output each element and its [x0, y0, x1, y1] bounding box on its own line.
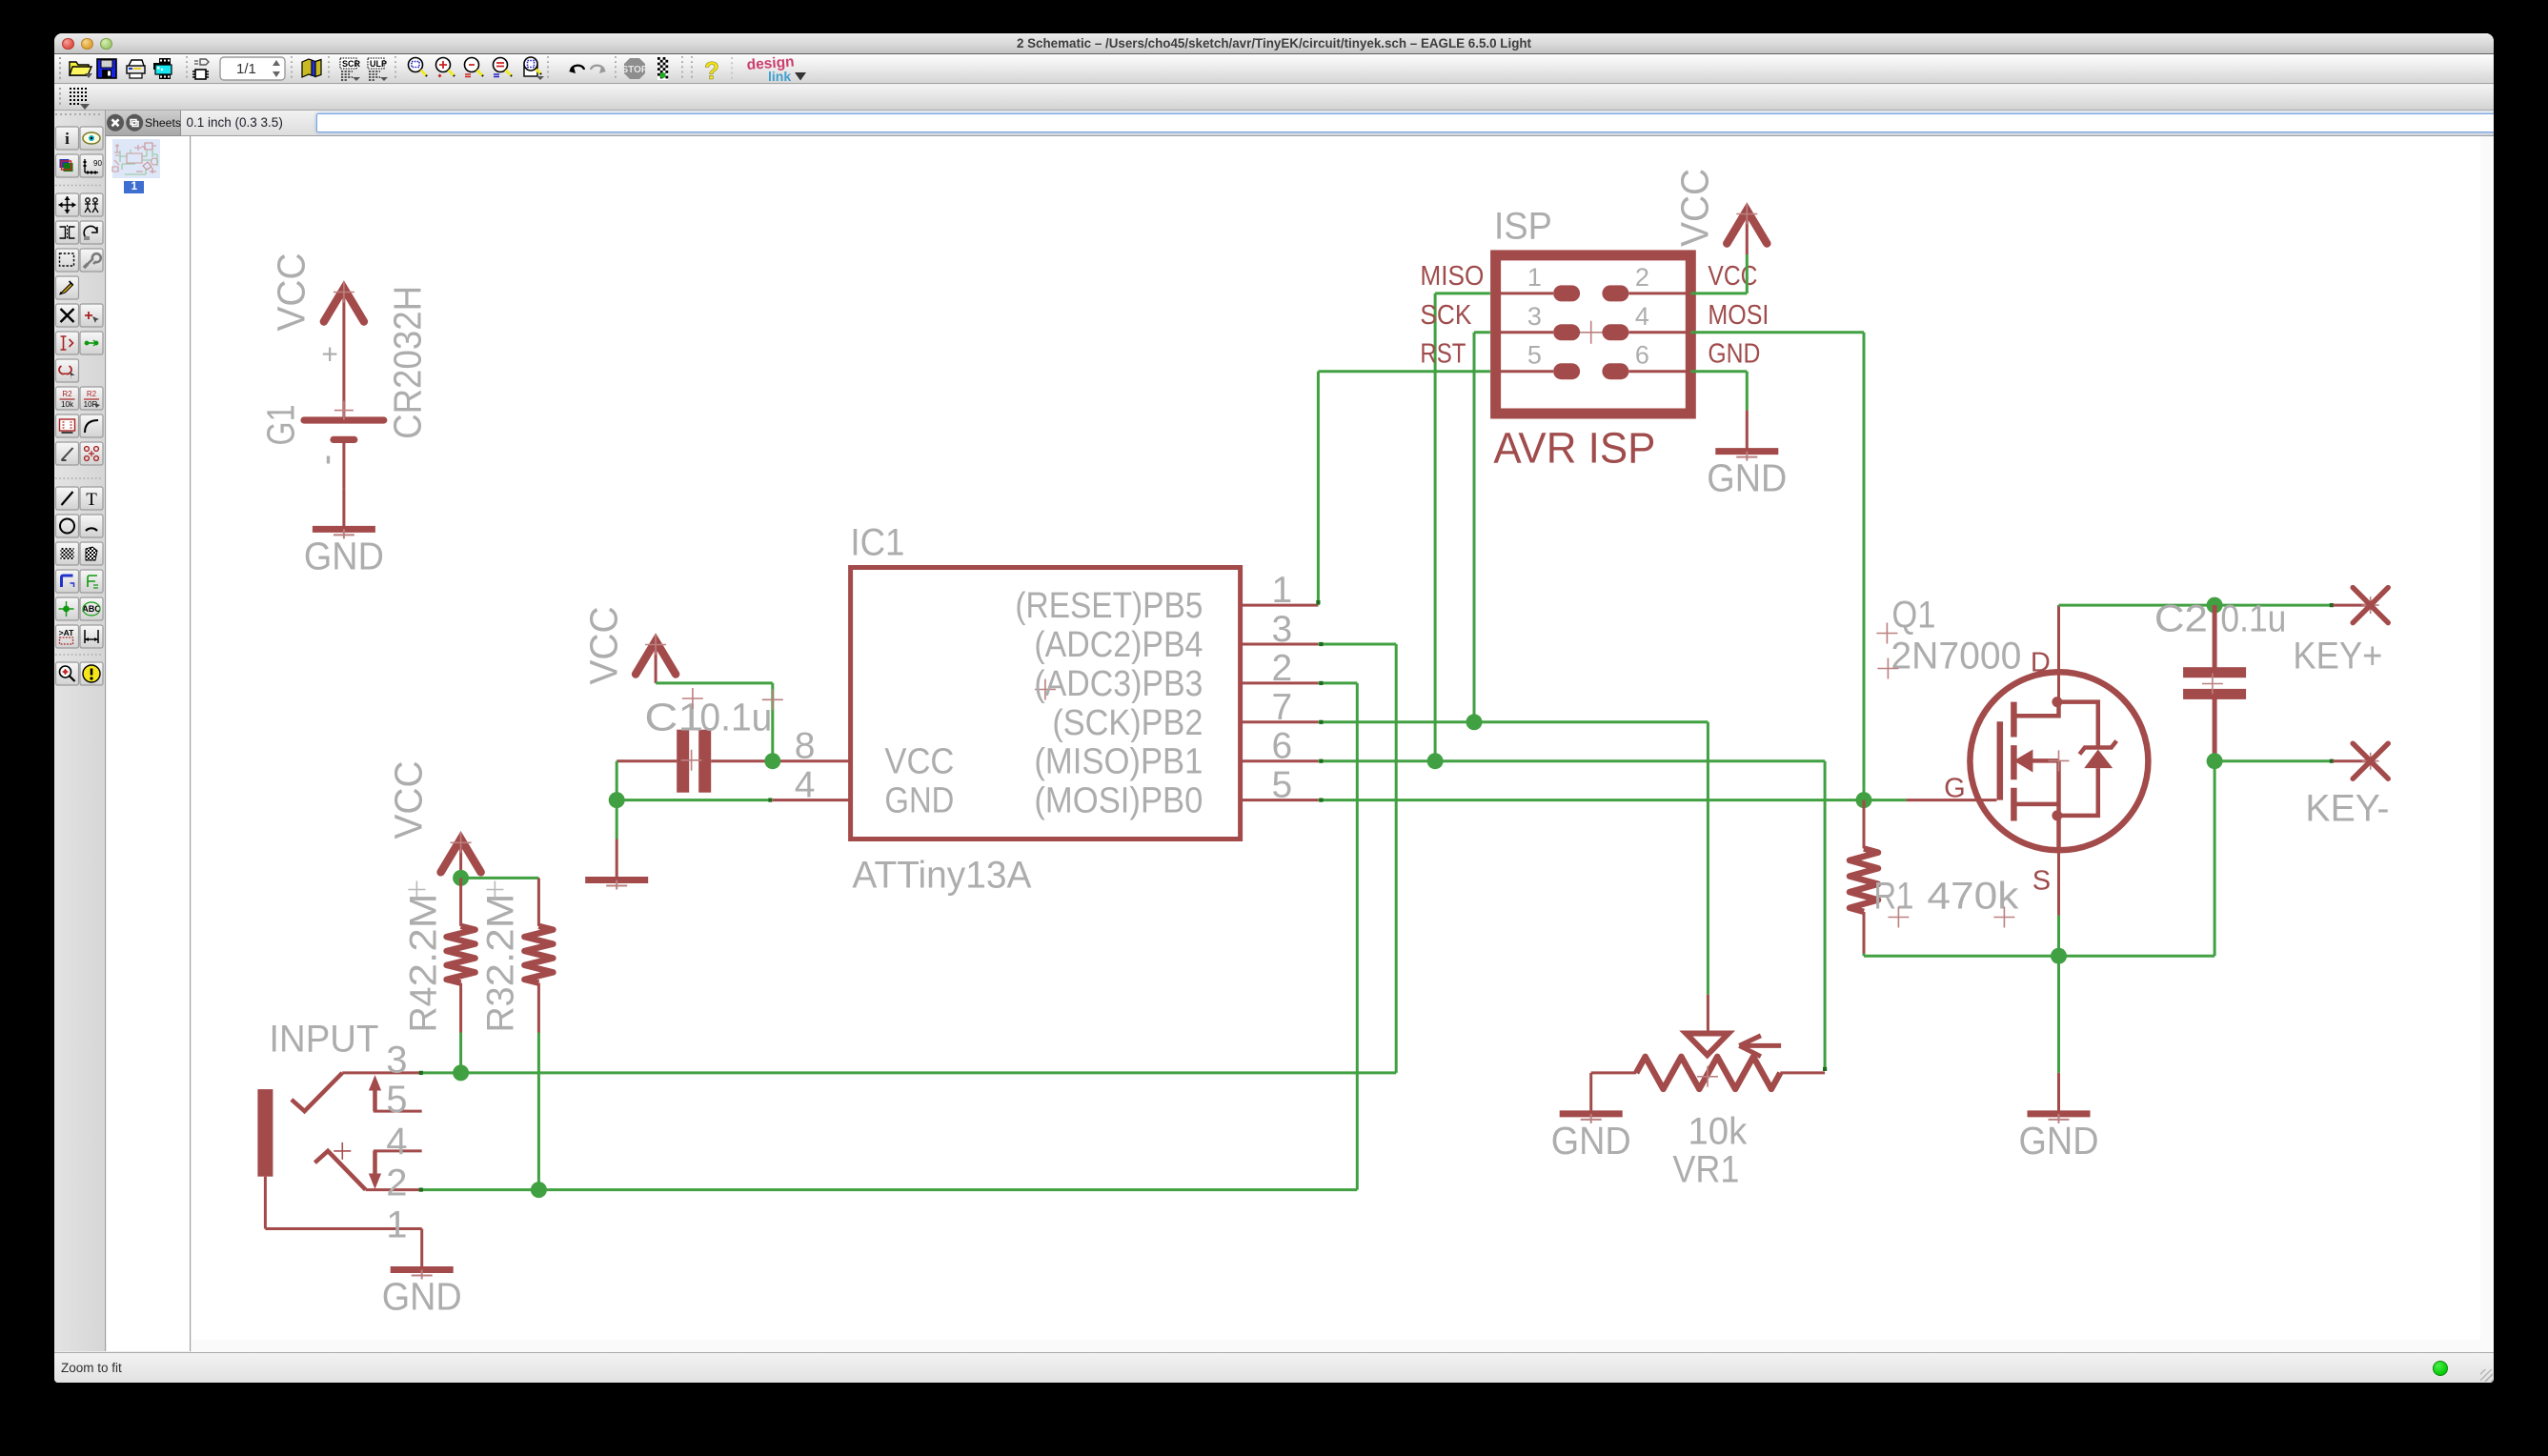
- wire draw tool: [56, 276, 79, 299]
- svg-text:R3: R3: [479, 986, 521, 1032]
- toolbar1 drag handle: [59, 57, 61, 80]
- errors tool: [80, 662, 103, 685]
- wire RST row to ISP: [1318, 370, 1490, 373]
- svg-text:R1: R1: [1873, 875, 1913, 917]
- text tool: [80, 487, 103, 510]
- ground GND (Q1 source): [2057, 1072, 2060, 1111]
- svg-text:VCC: VCC: [581, 606, 625, 684]
- toolbar icon ULP: [368, 58, 388, 81]
- arc tool: [80, 515, 103, 537]
- wire pin 8 row: [617, 759, 677, 762]
- label R2 10R tool: [80, 387, 103, 410]
- toolbar icon SCR script: [340, 58, 361, 81]
- wire drain row to KEY+: [2058, 603, 2330, 606]
- origin crosses Q1: [1876, 622, 1897, 643]
- svg-text:i: i: [65, 130, 70, 148]
- wire pin3 long row: [460, 1071, 1396, 1074]
- toolbar separator: [394, 56, 396, 81]
- wire C1 left drop: [615, 760, 617, 799]
- svg-text:(MISO)PB1: (MISO)PB1: [1034, 741, 1203, 781]
- wire PB2 row to VR1: [1318, 720, 1708, 723]
- toolbar icon zoom in: [436, 58, 455, 78]
- toolbar separator: [547, 56, 549, 81]
- wire MISO vertical: [1433, 293, 1436, 760]
- name tool: [56, 332, 79, 354]
- show tool: [80, 127, 103, 150]
- power symbol VCC (ISP): [1745, 208, 1748, 254]
- svg-text:0.1u: 0.1u: [699, 695, 772, 738]
- svg-text:10k: 10k: [61, 400, 74, 409]
- wire source node to KEY- riser: [2058, 954, 2214, 957]
- svg-text:VCC: VCC: [884, 741, 954, 781]
- toolbar sheet spinbox 1/1: [220, 57, 285, 80]
- left tool sidebar: [54, 111, 106, 1351]
- bus tool: [56, 570, 79, 593]
- IC IC1 ATTiny13A body: [850, 567, 1240, 839]
- wire PB3 net: [1318, 681, 1357, 684]
- svg-text:?: ?: [704, 56, 719, 85]
- origin crosses R4 R3: [408, 880, 425, 898]
- node R4/jack3 junction: [453, 1064, 469, 1081]
- svg-text:0.1u: 0.1u: [2220, 597, 2286, 639]
- designlink logo: [746, 54, 806, 84]
- node VCC/R4/R3 junction: [453, 869, 469, 885]
- svg-text:R2: R2: [87, 390, 97, 398]
- svg-text:Q1: Q1: [1891, 594, 1935, 636]
- status green dot: [2433, 1361, 2448, 1376]
- svg-text:VR1: VR1: [1672, 1148, 1739, 1190]
- label VCC (battery, vertical): [269, 253, 313, 331]
- schematic canvas: [192, 136, 2482, 1341]
- svg-text:S: S: [2032, 865, 2050, 896]
- svg-text:MISO: MISO: [1420, 260, 1484, 291]
- wire VCC to R3: [460, 876, 538, 879]
- wire ISP pin4 MOSI: [1690, 331, 1864, 334]
- display tool: [56, 154, 79, 177]
- toolbar icon undo: [569, 66, 584, 73]
- status bar: [54, 1352, 2494, 1383]
- resistor R3 2.2M: [536, 878, 539, 926]
- power symbol VCC (input): [459, 837, 462, 878]
- pins window tool: [56, 415, 79, 437]
- node C1-GND junction: [608, 792, 624, 808]
- jack switch pin 5: [373, 1109, 421, 1112]
- toolbar faded handle: [731, 57, 733, 80]
- rotate tool: [80, 221, 103, 244]
- svg-text:4: 4: [386, 1120, 407, 1162]
- node SCK/PB2 junction: [1466, 714, 1482, 730]
- toolbar row 1: [54, 54, 2494, 84]
- toolbar icon print: [127, 60, 145, 78]
- wire ISP pin6 GND: [1690, 370, 1747, 373]
- svg-text:(SCK)PB2: (SCK)PB2: [1052, 702, 1203, 742]
- ground GND (VR1): [1589, 1072, 1592, 1111]
- traffic light minimize: [81, 38, 93, 51]
- svg-text:1: 1: [1527, 262, 1541, 291]
- wire SCK vertical: [1472, 332, 1475, 721]
- label G1 (vertical): [258, 404, 302, 445]
- attribute tool: [56, 625, 79, 648]
- svg-text:SCR: SCR: [342, 59, 361, 69]
- toolbar icon layer settings: [657, 57, 668, 80]
- svg-text:3: 3: [1271, 609, 1292, 650]
- svg-text:CR2032H: CR2032H: [385, 285, 429, 438]
- svg-text:D: D: [2031, 647, 2051, 677]
- label 2.2M (R4, vertical): [402, 893, 444, 986]
- svg-text:MOSI: MOSI: [1708, 299, 1769, 330]
- svg-text:ATTiny13A: ATTiny13A: [852, 854, 1031, 896]
- jack tip contact pin 3: [342, 1071, 422, 1074]
- split tool: [56, 442, 79, 465]
- svg-text:1: 1: [1271, 570, 1292, 611]
- info tool: [56, 127, 79, 150]
- sheets tab label: [145, 116, 181, 130]
- jack pin 1 to GND: [263, 1176, 266, 1228]
- resistor R1 470k: [1862, 799, 1865, 848]
- toolbar icon export image: [153, 58, 172, 79]
- svg-text:1: 1: [386, 1203, 407, 1245]
- svg-text:VCC: VCC: [1672, 168, 1716, 246]
- erc tool: [56, 662, 79, 685]
- grid size label: [187, 115, 283, 130]
- wire SCK row to ISP: [1474, 331, 1490, 334]
- command combobox: [316, 113, 2548, 132]
- origin cross IC1: [1034, 678, 1055, 699]
- node C2 bottom junction: [2206, 753, 2222, 769]
- sheets dock button: [126, 114, 143, 131]
- toolbar2 drag handle: [59, 88, 61, 107]
- toolbar separator: [615, 56, 617, 81]
- group tool: [56, 249, 79, 272]
- wire jack3 to R4: [421, 1071, 460, 1074]
- wire VCC to pin8 node: [656, 681, 773, 684]
- sheets thumbnail mini schematic: [112, 143, 158, 174]
- svg-text:90: 90: [93, 159, 102, 168]
- svg-text:2N7000: 2N7000: [1891, 635, 2021, 677]
- grid icon with dropdown: [70, 88, 90, 110]
- svg-text:KEY-: KEY-: [2305, 787, 2389, 829]
- change tool: [80, 249, 103, 272]
- transistor Q1 2N7000 body: [1970, 672, 2148, 850]
- wire PB0 row: [1318, 799, 1864, 801]
- wire gate stub: [1864, 799, 1906, 801]
- ground GND (jack): [420, 1228, 423, 1267]
- pin KEY+ (cross): [2361, 597, 2378, 614]
- ground GND (battery): [342, 488, 345, 527]
- wire R4 to pin3 row: [459, 1032, 462, 1072]
- scrollbar gutters: [192, 1340, 2494, 1352]
- svg-text:6: 6: [1634, 340, 1648, 369]
- wire jack2 to R3: [421, 1188, 538, 1191]
- value tool: [80, 332, 103, 354]
- wire ISP pin2 to VCC: [1690, 292, 1747, 294]
- svg-text:8: 8: [794, 725, 815, 766]
- toolbar icon stop: [621, 58, 647, 79]
- toolbar row 2: [54, 85, 2494, 111]
- toolbar separator: [681, 56, 683, 81]
- add tool: [80, 304, 103, 327]
- node source junction: [2051, 947, 2067, 963]
- svg-text:T: T: [86, 490, 97, 510]
- wire R1 to source node: [1862, 953, 1865, 956]
- delete tool: [56, 304, 79, 327]
- title bar: [54, 33, 2494, 54]
- toolbar icon save: [97, 59, 116, 78]
- svg-text:4: 4: [1634, 301, 1648, 330]
- node R3/jack2 junction: [530, 1182, 546, 1198]
- svg-text:(MOSI)PB0: (MOSI)PB0: [1034, 780, 1203, 820]
- origin cross ISP: [1579, 320, 1602, 343]
- label net tool: [80, 597, 103, 620]
- move tool: [56, 193, 79, 216]
- label VCC (input, vertical): [386, 760, 430, 839]
- capacitor C1: [677, 729, 689, 792]
- line tool: [56, 487, 79, 510]
- polygon tool: [80, 542, 103, 565]
- label VCC (C1, vertical): [581, 606, 625, 684]
- svg-text:link: link: [768, 69, 791, 84]
- sheets panel: [107, 111, 191, 1351]
- wire PB2 to wiper: [1706, 721, 1709, 994]
- circle tool: [56, 515, 79, 537]
- resistor R4 2.2M: [459, 878, 462, 926]
- svg-text:RST: RST: [1420, 338, 1466, 369]
- svg-text:C1: C1: [644, 695, 703, 738]
- svg-text:G: G: [1944, 773, 1966, 803]
- svg-text:STOP: STOP: [621, 65, 647, 75]
- svg-text:R2: R2: [62, 390, 72, 398]
- jack ring contact pin 2: [365, 1188, 421, 1191]
- origin crosses R1: [1888, 906, 1909, 927]
- net tool: [80, 570, 103, 593]
- svg-text:7: 7: [1271, 686, 1292, 727]
- svg-text:GND: GND: [381, 1274, 461, 1318]
- sheet 1 selected label: [124, 181, 144, 193]
- label 2.2M (R3, vertical): [479, 893, 521, 986]
- sheets thumbnail: [112, 139, 160, 178]
- toolbar icon zoom out: [465, 58, 484, 77]
- svg-text:2: 2: [386, 1162, 407, 1203]
- svg-text:GND: GND: [1550, 1118, 1630, 1162]
- mark tool: [80, 154, 103, 177]
- svg-text:AVR ISP: AVR ISP: [1493, 423, 1655, 472]
- svg-text:470k: 470k: [1927, 875, 2019, 917]
- svg-text:+: +: [321, 338, 338, 370]
- svg-text:6: 6: [1271, 725, 1292, 766]
- svg-text:5: 5: [1527, 340, 1541, 369]
- copy tool: [80, 193, 103, 216]
- svg-text:(ADC3)PB3: (ADC3)PB3: [1034, 663, 1203, 703]
- junction tool: [56, 597, 79, 620]
- svg-text:C2: C2: [2154, 597, 2207, 639]
- pin KEY- (cross): [2361, 752, 2378, 769]
- svg-text:R4: R4: [402, 986, 444, 1032]
- node C2 top junction: [2206, 597, 2222, 613]
- status text: [61, 1361, 122, 1375]
- label R3 (vertical): [479, 986, 521, 1032]
- svg-text:3: 3: [386, 1039, 407, 1081]
- miter arc tool: [80, 415, 103, 437]
- svg-text:2: 2: [1634, 262, 1648, 291]
- traffic light close: [62, 38, 74, 51]
- label VCC (ISP, vertical): [1672, 168, 1716, 246]
- toolbar icon open file: [70, 62, 92, 78]
- jack switch pin 4: [373, 1149, 421, 1152]
- svg-text:IC1: IC1: [850, 521, 904, 563]
- connector INPUT jack sleeve: [257, 1089, 273, 1177]
- resize grip: [2480, 1369, 2493, 1382]
- wire drain riser: [2057, 605, 2060, 702]
- rect tool: [56, 542, 79, 565]
- svg-text:(RESET)PB5: (RESET)PB5: [1015, 586, 1203, 626]
- command row: [181, 111, 2495, 136]
- schematic drawing: [192, 136, 2482, 1341]
- wire PB4 net: [1318, 642, 1396, 645]
- svg-text:KEY+: KEY+: [2293, 635, 2382, 677]
- label - (battery): [326, 455, 329, 463]
- wire C1 gnd drop: [615, 799, 617, 839]
- svg-text:SCK: SCK: [1420, 299, 1472, 330]
- toolbar icon zoom select: [494, 58, 513, 77]
- svg-text:(ADC2)PB4: (ADC2)PB4: [1034, 625, 1203, 665]
- svg-text:VCC: VCC: [1708, 260, 1757, 291]
- ground GND (ISP): [1745, 410, 1748, 449]
- window title: [54, 33, 2494, 53]
- toolbar separator: [291, 56, 293, 81]
- wire MISO row to ISP: [1435, 292, 1490, 294]
- svg-text:2.2M: 2.2M: [402, 893, 444, 986]
- toolbar icon library use: [302, 59, 321, 77]
- svg-text:GND: GND: [303, 534, 383, 577]
- node PB0/gate junction: [1855, 792, 1871, 808]
- mirror tool: [56, 221, 79, 244]
- svg-text:VCC: VCC: [269, 253, 313, 331]
- toolbar icon redo: [591, 66, 606, 73]
- wire source drop: [2057, 850, 2060, 915]
- toolbar icon zoom redraw: [524, 57, 544, 80]
- svg-text:GND: GND: [1708, 338, 1760, 369]
- node pin8/VCC junction: [764, 753, 780, 769]
- pinswap tool: [80, 442, 103, 465]
- label CR2032H (vertical): [385, 285, 429, 438]
- wire R3 to pin2 row: [536, 1032, 539, 1189]
- traffic light zoom: [100, 38, 112, 51]
- svg-text:ISP: ISP: [1493, 205, 1551, 247]
- svg-text:GND: GND: [884, 780, 954, 820]
- toolbar icon zoom fit: [409, 58, 428, 77]
- svg-text:INPUT: INPUT: [269, 1018, 378, 1060]
- connector ISP frame: [1495, 254, 1690, 413]
- wire MOSI vertical: [1862, 332, 1865, 799]
- toolbar icon open board: [192, 59, 209, 79]
- battery G1 CR2032H: [300, 416, 387, 423]
- wire RST net (pin1 up): [1316, 371, 1319, 604]
- wire PB1 row: [1318, 759, 1825, 762]
- origin cross C1: [681, 688, 702, 709]
- svg-text:GND: GND: [1707, 455, 1787, 499]
- svg-text:G1: G1: [258, 404, 302, 445]
- svg-text:3: 3: [1527, 301, 1541, 330]
- svg-text:4: 4: [794, 764, 815, 805]
- ground (C1): [615, 839, 617, 878]
- node MISO/PB1 junction: [1426, 753, 1443, 769]
- dimension tool: [80, 625, 103, 648]
- svg-text:5: 5: [1271, 764, 1292, 805]
- svg-text:1/1: 1/1: [236, 61, 256, 77]
- svg-text:2: 2: [1271, 647, 1292, 688]
- sidebar separator: [55, 186, 103, 656]
- potentiometer VR1 10k: [1706, 994, 1709, 1033]
- sheets close button: [107, 114, 124, 131]
- svg-text:5: 5: [386, 1079, 407, 1121]
- power symbol VCC (battery): [342, 286, 345, 410]
- svg-text:VCC: VCC: [386, 760, 430, 839]
- wire pin2 long row: [538, 1188, 1357, 1191]
- wire VR1 right riser: [1823, 760, 1826, 1069]
- sidebar handle: [55, 113, 103, 115]
- svg-text:2.2M: 2.2M: [479, 893, 521, 986]
- smash tool: [56, 359, 79, 382]
- ISP pads pins 1-6: [1553, 285, 1580, 301]
- power symbol VCC (C1): [654, 638, 657, 682]
- svg-text:>AT: >AT: [59, 628, 74, 637]
- wire KEY- row: [2214, 759, 2330, 762]
- toolbar separator: [186, 56, 188, 81]
- toolbar separator: [328, 56, 330, 81]
- label R2 10k tool: [56, 387, 79, 410]
- svg-text:GND: GND: [2018, 1118, 2098, 1162]
- IC1 right pins PB5,PB4,PB3,PB2,PB1,PB0: [1240, 603, 1318, 606]
- origin cross jack: [334, 1142, 351, 1159]
- capacitor C2: [2212, 605, 2216, 667]
- label R4 (vertical): [402, 986, 444, 1032]
- svg-text:ULP: ULP: [370, 59, 387, 69]
- svg-text:10k: 10k: [1688, 1110, 1748, 1152]
- wire pin 4 row: [617, 799, 768, 801]
